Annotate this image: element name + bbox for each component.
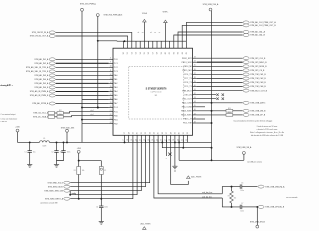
svg-text:PC8_T3: PC8_T3 — [184, 82, 192, 84]
svg-text:shmtg: shmtg — [0, 84, 7, 87]
node right port STM_USB_DET wire row 12 — [197, 101, 266, 104]
svg-text:xxx su comodo: xxx su comodo — [286, 197, 297, 199]
svg-text:29: 29 — [175, 132, 177, 134]
wire row 17 to VBUS vertical — [197, 122, 212, 124]
svg-text:STM_AD_IN1_A: STM_AD_IN1_A — [34, 58, 49, 61]
svg-text:STM_AD_IN4_A: STM_AD_IN4_A — [34, 78, 49, 81]
svg-text:PD2_T3E: PD2_T3E — [183, 123, 192, 125]
svg-text:LQFP64 10x10: LQFP64 10x10 — [151, 91, 162, 93]
wire VDD branches to lower-left pins — [82, 100, 109, 124]
svg-text:54: 54 — [140, 52, 142, 54]
svg-text:62: 62 — [173, 52, 175, 54]
svg-text:STM_AD_IN3_A: STM_AD_IN3_A — [34, 74, 49, 77]
node left port STM_AD_IN_PWM_A with wire to U1 pin — [30, 90, 109, 93]
svg-text:STM_MCO_OUT_B: STM_MCO_OUT_B — [250, 90, 268, 92]
svg-text:STM_AD_SEL_IN_TRK_B: STM_AD_SEL_IN_TRK_B — [26, 70, 49, 73]
svg-text:50: 50 — [123, 52, 125, 54]
svg-text:16: 16 — [110, 90, 112, 92]
svg-text:26: 26 — [162, 132, 164, 134]
svg-text:57: 57 — [152, 52, 154, 54]
node left port STM_AD_SEL_IN_TRK_B with wire to U1 pin — [26, 70, 109, 73]
node right port STM_TIM_CH3_B with wire from U1 — [197, 81, 266, 84]
svg-text:PC9_T3: PC9_T3 — [184, 86, 192, 88]
svg-text:44: 44 — [194, 101, 196, 103]
svg-text:STM_AD_IN5_A: STM_AD_IN5_A — [34, 82, 49, 85]
svg-text:via USB per arrivino: via USB per arrivino — [247, 160, 262, 163]
node port STM_OSC32_IN wire bending to top pin — [32, 31, 132, 41]
svg-text:14: 14 — [110, 82, 112, 84]
svg-text:STM_SPI_CLK_B: STM_SPI_CLK_B — [250, 58, 266, 60]
power 3V3_PWER triangle bottom — [141, 222, 152, 229]
svg-text:19: 19 — [110, 102, 112, 104]
svg-text:60: 60 — [165, 52, 167, 54]
node left port STM_AD_IN_PWM_B with wire to U1 pin — [30, 94, 109, 97]
svg-text:dal decode da USB ed in altezz: dal decode da USB ed in altezza da 1 USB — [251, 134, 284, 137]
node terminal USB_CONN circle top-right — [236, 146, 252, 160]
svg-text:I raccomandiamo di mettere qui: I raccomandiamo di mettere qui dei limit… — [233, 119, 272, 122]
node power flag STM_VDD circle — [61, 127, 74, 142]
svg-text:STM_USB_(DET): STM_USB_(DET) — [250, 103, 265, 105]
svg-text:PA13_SWD: PA13_SWD — [181, 110, 192, 113]
svg-text:22: 22 — [145, 132, 147, 134]
svg-text:38: 38 — [194, 77, 196, 79]
svg-text:STM_VDD_3V3: STM_VDD_3V3 — [61, 127, 74, 129]
node port USB_DM out — [258, 185, 285, 188]
svg-text:24: 24 — [154, 132, 156, 134]
svg-text:vd: vd — [150, 32, 152, 34]
svg-text:STM_TIM_CH2_B: STM_TIM_CH2_B — [250, 78, 266, 80]
svg-text:34: 34 — [194, 61, 196, 63]
ground bottom middle — [174, 165, 176, 167]
svg-text:PA8_MCO: PA8_MCO — [182, 89, 192, 92]
svg-text:37: 37 — [194, 73, 196, 75]
svg-text:10: 10 — [110, 66, 112, 68]
svg-text:C7: C7 — [241, 203, 243, 205]
svg-text:STM_TIM_CH3_B: STM_TIM_CH3_B — [250, 82, 266, 84]
wire row 13 short stub — [197, 106, 205, 108]
svg-text:STM_SWD_NRST_A: STM_SWD_NRST_A — [45, 197, 64, 200]
node left port STM_AD_IN2_A with wire to U1 pin — [34, 62, 108, 65]
svg-text:sda1: sda1 — [90, 110, 94, 112]
svg-text:R12: R12 — [59, 110, 62, 112]
svg-text:R21: R21 — [228, 112, 231, 114]
svg-text:17: 17 — [123, 139, 125, 141]
svg-text:100n: 100n — [104, 207, 108, 209]
svg-text:20: 20 — [137, 132, 139, 134]
node right port STM_TIM_CH2_B with wire from U1 — [197, 77, 266, 80]
svg-text:20: 20 — [110, 106, 112, 108]
node top-right port STM_AD_CAL_B wire bending down to top pin — [174, 34, 266, 42]
svg-text:65: 65 — [186, 52, 188, 54]
svg-text:STM_3V3_PWR_AUX: STM_3V3_PWR_AUX — [104, 14, 124, 17]
svg-text:9: 9 — [110, 62, 111, 64]
svg-text:L1: L1 — [43, 138, 45, 140]
node port STM_SWD_SWO_DN wire to bottom pin — [44, 140, 141, 193]
node terminal STM_USB_VBUS circle top — [203, 3, 219, 160]
svg-text:R13: R13 — [59, 114, 62, 116]
node left port STM_AD_STROBE with wire — [32, 102, 108, 105]
capacitor C9 crystal load marks row 11 — [197, 98, 224, 100]
wire horizontal feed y40.8 into top pin bus — [98, 40, 117, 42]
svg-text:46: 46 — [194, 109, 196, 111]
svg-text:STM_AD_IN_PWM_A: STM_AD_IN_PWM_A — [30, 90, 49, 93]
svg-text:R3: R3 — [228, 196, 230, 198]
svg-text:56: 56 — [148, 52, 150, 54]
svg-text:PC6_T3: PC6_T3 — [184, 74, 192, 76]
svg-text:49: 49 — [194, 121, 196, 123]
U1 right pin stubs and pin numbers — [181, 57, 197, 125]
ground under C2 — [56, 164, 58, 166]
svg-text:K1: K1 — [104, 170, 106, 172]
svg-text:52: 52 — [131, 52, 133, 54]
svg-text:I limiti di misura sui 5V max: I limiti di misura sui 5V max — [257, 125, 278, 128]
node terminal STM_3V3_AUX circle with vertical wire — [96, 14, 123, 109]
capacitor C8 crystal load marks row 10 — [197, 94, 224, 96]
svg-text:sda1: sda1 — [90, 114, 94, 116]
transistor K1 reset switch — [99, 161, 106, 206]
svg-text:22: 22 — [110, 114, 112, 116]
svg-text:21: 21 — [110, 110, 112, 112]
ground under C1 — [29, 164, 31, 166]
svg-text:STM_AD_IN2_A: STM_AD_IN2_A — [34, 62, 49, 65]
node top-right port STM_AD_CAL_A wire bending down to top pin — [178, 31, 266, 42]
svg-text:18: 18 — [110, 98, 112, 100]
node port STM_SWD_SCLK wire to bottom pin — [48, 140, 150, 185]
wire top pin bus — [117, 40, 186, 42]
U1 top pin stubs and pin numbers — [123, 41, 188, 54]
svg-text:15: 15 — [110, 86, 112, 88]
svg-text:25: 25 — [158, 132, 160, 134]
svg-text:51: 51 — [127, 52, 129, 54]
capacitor C6 series top rail — [240, 183, 257, 193]
svg-text:18: 18 — [128, 132, 130, 134]
svg-text:STM_USB_DP(CN)_B: STM_USB_DP(CN)_B — [265, 207, 285, 209]
svg-text:43: 43 — [194, 97, 196, 99]
resistor R21 series on STM_USB_DP_B — [197, 112, 266, 117]
svg-text:STM_USB_DM(CN)_A: STM_USB_DM(CN)_A — [265, 185, 285, 188]
svg-text:12: 12 — [110, 74, 112, 76]
svg-text:U1: U1 — [155, 95, 157, 97]
node port STM_SWD_SDIO wire to bottom pin — [48, 140, 146, 189]
node right port STM_MCO_OUT_B with wire from U1 — [197, 89, 268, 92]
svg-text:58: 58 — [157, 52, 159, 54]
node top-right port STM_AD_CLK_PWM_OUT_A wire bending down to top pin — [186, 21, 276, 41]
svg-text:23: 23 — [149, 132, 151, 134]
node right port STM_SPI_CLK_B with wire from U1 — [197, 57, 266, 60]
svg-text:STM_AD_CLK_PWM_OUT_B: STM_AD_CLK_PWM_OUT_B — [250, 24, 276, 27]
svg-text:+5V0: +5V0 — [15, 127, 19, 129]
capacitor C3 — [57, 142, 71, 160]
wire pin 12 down to AVDD triangle with X net mark — [168, 140, 188, 185]
svg-text:STM_AD_SEL_IN_TRK_A: STM_AD_SEL_IN_TRK_A — [26, 66, 49, 69]
svg-text:55: 55 — [144, 52, 146, 54]
svg-text:C xx nominal output: C xx nominal output — [1, 113, 16, 116]
svg-text:STM_SPI_CS_B: STM_SPI_CS_B — [250, 70, 265, 72]
wire usb data line net labels — [202, 192, 212, 198]
node port STM_OSC32_OUT wire bending to top pin — [30, 35, 128, 42]
svg-text:OSC_OUT: OSC_OUT — [182, 98, 192, 100]
svg-text:32: 32 — [187, 132, 189, 134]
svg-text:STM_AD_IN_PWM_B: STM_AD_IN_PWM_B — [30, 94, 49, 97]
resistor R1 reset pull-up — [74, 161, 85, 200]
svg-text:36: 36 — [194, 69, 196, 71]
svg-text:64: 64 — [182, 52, 184, 54]
svg-text:29: 29 — [173, 139, 175, 141]
svg-text:48: 48 — [194, 117, 196, 119]
wire row 16 to VBUS vertical — [197, 118, 205, 120]
wire main power rail — [18, 141, 212, 143]
svg-text:30: 30 — [179, 132, 181, 134]
svg-text:PB15_MO: PB15_MO — [182, 70, 192, 72]
svg-text:61: 61 — [169, 52, 171, 54]
IC U1 microcontroller STM32F103 body — [113, 48, 193, 135]
svg-text:41: 41 — [194, 89, 196, 91]
node left port STM_AD_IN1_A with wire to U1 pin — [34, 58, 108, 61]
svg-text:PC7_T3: PC7_T3 — [184, 78, 192, 80]
svg-text:35: 35 — [194, 65, 196, 67]
svg-text:usb_dm_line: usb_dm_line — [202, 192, 212, 194]
svg-text:connettore console SW: connettore console SW — [40, 201, 58, 204]
svg-text:63: 63 — [178, 52, 180, 54]
svg-text:AVD_PWER: AVD_PWER — [141, 222, 152, 225]
svg-text:usb_dp_line: usb_dp_line — [202, 196, 212, 198]
svg-text:19: 19 — [133, 132, 135, 134]
svg-text:AVD_PWER: AVD_PWER — [191, 176, 202, 179]
node right port STM_SPI_CS_B with wire from U1 — [197, 69, 265, 72]
svg-text:27: 27 — [166, 132, 168, 134]
svg-text:STM_AD_CLK_PWM_OUT_A: STM_AD_CLK_PWM_OUT_A — [250, 21, 276, 24]
svg-text:STM_USB_SH_B: STM_USB_SH_B — [250, 221, 266, 223]
svg-text:C2: C2 — [51, 151, 53, 153]
svg-text:33: 33 — [194, 57, 196, 59]
svg-text:17: 17 — [110, 94, 112, 96]
svg-text:e dentro la PCB con il rame: e dentro la PCB con il rame — [257, 128, 278, 131]
svg-text:28: 28 — [170, 132, 172, 134]
svg-text:24: 24 — [110, 122, 112, 124]
node power flag +3V3 reset pull-up — [77, 148, 102, 162]
svg-text:+3V3: +3V3 — [77, 148, 81, 150]
capacitor C7 series bottom rail — [240, 203, 257, 213]
svg-text:STM_SPI_MISO_B: STM_SPI_MISO_B — [250, 62, 267, 64]
capacitor C4 on reset line — [96, 206, 108, 222]
svg-text:11: 11 — [110, 70, 112, 72]
svg-text:PA14_SWC: PA14_SWC — [181, 114, 192, 117]
svg-text:STM_SWD_SWO_DN: STM_SWD_SWO_DN — [44, 190, 63, 192]
svg-text:STM_USB_5V0_A: STM_USB_5V0_A — [203, 3, 219, 6]
svg-text:100n: 100n — [67, 151, 71, 153]
svg-text:STM_AD_CAL_A: STM_AD_CAL_A — [250, 31, 265, 34]
svg-text:STM_5V0_PWR(+): STM_5V0_PWR(+) — [80, 4, 97, 6]
svg-text:PB14_MI: PB14_MI — [183, 66, 192, 68]
svg-text:STM_USB_VB_A: STM_USB_VB_A — [236, 146, 252, 149]
svg-text:PA15_JT: PA15_JT — [184, 118, 193, 121]
svg-text:STM_OSC32_OUT_A: STM_OSC32_OUT_A — [30, 35, 49, 38]
svg-text:PB13_SCK: PB13_SCK — [182, 62, 193, 64]
svg-text:STM_SPI_MOSI_B: STM_SPI_MOSI_B — [250, 66, 267, 68]
svg-text:C6: C6 — [241, 183, 243, 185]
ground under C4 — [100, 221, 102, 223]
svg-text:STM_I2C_SCL_A: STM_I2C_SCL_A — [33, 112, 49, 115]
svg-text:STM_USB_DM_B: STM_USB_DM_B — [250, 111, 266, 113]
svg-text:xb: xb — [138, 32, 140, 34]
node sheet reference label — [0, 84, 14, 87]
svg-text:xa: xa — [142, 32, 144, 34]
wire bottom pin 10 bend to right y147.7 — [162, 140, 211, 148]
svg-text:STM_TIM_CH4_B: STM_TIM_CH4_B — [250, 86, 266, 88]
svg-text:R1: R1 — [74, 170, 76, 172]
svg-text:13: 13 — [110, 78, 112, 80]
node left port STM_AD_IN4_A with wire to U1 pin — [34, 78, 108, 81]
resistor R20 series on STM_USB_DM_B — [197, 108, 266, 113]
node terminal USB shield circle bottom — [250, 206, 266, 228]
svg-text:VDDA: VDDA — [142, 12, 148, 15]
node terminal VCC circle — [15, 127, 19, 143]
svg-text:STM_SWD_SDIO: STM_SWD_SDIO — [48, 186, 64, 188]
ground stub from rail — [174, 141, 176, 166]
resistor R13 in series on STM_I2C_SDA_A line, rect port — [33, 114, 109, 119]
svg-text:STM_SWD_SCLK: STM_SWD_SCLK — [48, 182, 64, 184]
inductor L1 ferrite bead — [40, 138, 50, 148]
note text block right — [233, 119, 284, 137]
svg-text:Nota: I collegamenti si trovan: Nota: I collegamenti si trovano _A su _B… — [250, 131, 284, 134]
svg-text:STM_AD_CAL_B: STM_AD_CAL_B — [250, 34, 265, 37]
power VDDA triangle A — [142, 12, 148, 41]
svg-text:100n: 100n — [240, 211, 244, 213]
node no-connect stub pin 11 — [166, 140, 167, 160]
power AVDD triangle with label — [187, 176, 202, 179]
wire SWD_GND branch with net label — [69, 140, 137, 196]
svg-text:59: 59 — [161, 52, 163, 54]
svg-text:swdg: swdg — [72, 193, 76, 195]
wire bottom pin 15 drop — [182, 140, 184, 148]
wire bottom pin 13 to y160.3 run right — [178, 140, 180, 161]
svg-text:STM_TIM_CH1_B: STM_TIM_CH1_B — [250, 74, 266, 76]
svg-text:PA11_USB: PA11_USB — [182, 102, 192, 105]
svg-text:39: 39 — [194, 81, 196, 83]
wire usb_dp from bottom pin 7 — [154, 140, 222, 198]
svg-text:x son xx: x son xx — [1, 121, 7, 123]
svg-text:C4: C4 — [96, 207, 98, 209]
capacitor C1 with ground — [25, 142, 36, 164]
power VREF triangle B — [162, 12, 168, 42]
svg-text:VREF+: VREF+ — [162, 12, 168, 14]
svg-text:STM_AD_STRB_A: STM_AD_STRB_A — [32, 102, 49, 105]
svg-text:STM_AD_IN6_B: STM_AD_IN6_B — [34, 86, 49, 89]
node right port STM_TIM_CH1_B with wire from U1 — [197, 73, 266, 76]
resistor R12 in series on STM_I2C_SCL_A line, rect port — [33, 110, 108, 115]
svg-text:C1: C1 — [25, 151, 27, 153]
node left port STM_AD_IN3_A with wire to U1 pin — [34, 74, 108, 77]
U1 left pin stubs and pin numbers — [109, 58, 119, 126]
svg-text:STM_I2C_SDA_A: STM_I2C_SDA_A — [33, 116, 49, 119]
svg-text:47: 47 — [194, 113, 196, 115]
node port USB_DP out — [258, 205, 285, 208]
svg-text:10k: 10k — [82, 170, 85, 172]
svg-text:vs: vs — [159, 32, 161, 34]
node terminal STM_5V0_PWR circle with vertical bus wire — [80, 4, 97, 143]
U1 bottom pin stubs and pin numbers — [123, 132, 189, 142]
svg-text:18: 18 — [127, 139, 129, 141]
svg-text:STM_USB_DP_B: STM_USB_DP_B — [250, 115, 266, 117]
node left port STM_AD_IN5_A with wire to U1 pin — [34, 82, 108, 85]
wire usb split rails — [222, 187, 240, 207]
wire usb_dm from bottom pin 8 — [158, 140, 222, 194]
svg-text:42: 42 — [194, 93, 196, 95]
svg-text:23: 23 — [110, 118, 112, 120]
note text near power section — [1, 113, 18, 123]
svg-text:45: 45 — [194, 105, 196, 107]
svg-text:R20: R20 — [228, 108, 231, 110]
node left port STM_AD_SEL_IN_TRK_A with wire to U1 pin — [26, 66, 109, 69]
node port STM_SWD_NRST_A wire to bottom pin — [45, 140, 133, 201]
svg-text:100n: 100n — [240, 190, 244, 192]
svg-text:10u: 10u — [33, 151, 36, 153]
svg-text:STM_OSC32_IN_A: STM_OSC32_IN_A — [32, 31, 49, 34]
node right port STM_TIM_CH4_B with wire from U1 — [197, 85, 266, 88]
svg-text:PA12_USB: PA12_USB — [182, 106, 193, 109]
svg-text:31: 31 — [183, 132, 185, 134]
svg-text:S STM32F103RBT6: S STM32F103RBT6 — [146, 88, 168, 90]
svg-text:1k5: 1k5 — [234, 198, 237, 200]
svg-text:40: 40 — [194, 85, 196, 87]
node right port STM_SPI_MOSI_B with wire from U1 — [197, 65, 267, 68]
svg-text:8: 8 — [110, 58, 111, 60]
node left port STM_AD_IN6_B with wire to U1 pin — [34, 86, 108, 89]
node top-right port STM_AD_CLK_PWM_OUT_B wire bending down to top pin — [182, 24, 276, 41]
svg-text:17: 17 — [124, 132, 126, 134]
svg-text:53: 53 — [136, 52, 138, 54]
node right port STM_SPI_MISO_B with wire from U1 — [197, 61, 267, 64]
svg-text:va: va — [154, 32, 156, 34]
svg-text:OSC_IN: OSC_IN — [184, 94, 192, 96]
svg-text:21: 21 — [141, 132, 143, 134]
resistor R3 between usb rails — [228, 186, 237, 208]
svg-text:PB12_SP2: PB12_SP2 — [182, 58, 193, 60]
svg-text:32: 32 — [186, 139, 188, 141]
capacitor C2 with ground — [51, 142, 63, 164]
